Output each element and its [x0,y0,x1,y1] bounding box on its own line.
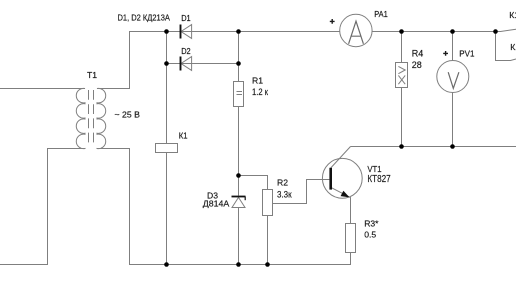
svg-text:PA1: PA1 [374,9,388,19]
svg-text:28: 28 [412,60,422,70]
svg-text:~ 25 В: ~ 25 В [115,110,141,120]
svg-text:К1.2: К1.2 [510,42,516,52]
svg-text:К1.1: К1.1 [509,10,516,20]
svg-text:D1: D1 [181,13,191,23]
svg-text:D2: D2 [181,46,191,56]
svg-text:R1: R1 [252,76,263,86]
svg-text:D1, D2 КД213А: D1, D2 КД213А [118,12,171,22]
svg-text:R2: R2 [277,178,288,188]
svg-text:R3*: R3* [364,218,379,228]
svg-text:0.5: 0.5 [364,229,376,239]
svg-text:1.2 к: 1.2 к [252,87,268,97]
svg-text:3.3к: 3.3к [277,189,292,199]
svg-text:PV1: PV1 [459,49,474,59]
svg-text:КТ827: КТ827 [367,174,391,185]
svg-text:Д814А: Д814А [203,199,230,209]
svg-text:R4: R4 [412,49,424,59]
svg-text:VT1: VT1 [367,164,381,174]
svg-text:Т1: Т1 [87,70,97,80]
svg-text:К1: К1 [179,130,188,140]
